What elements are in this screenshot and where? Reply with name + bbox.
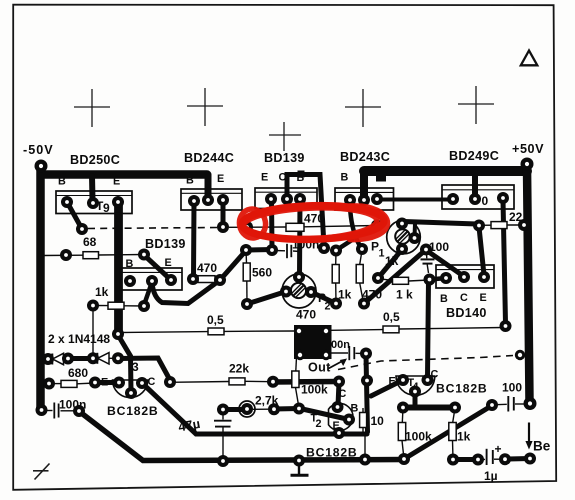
node diode D2 cathode trunk <box>112 352 124 364</box>
node BD244C E lower <box>217 221 229 233</box>
pin BD139 T1 B <box>294 193 306 205</box>
svg-text:2: 2 <box>316 418 322 430</box>
node bias rail right <box>449 402 461 414</box>
jumper tab under bus <box>376 176 386 182</box>
svg-text:C: C <box>339 388 347 400</box>
Out arrow <box>329 359 348 369</box>
svg-text:BD139: BD139 <box>264 151 305 165</box>
resistor 470 (red-circled) <box>229 223 377 231</box>
node trunk bottom <box>112 328 124 340</box>
wire P2 left arm <box>247 292 286 305</box>
pin BD140 C <box>458 271 470 283</box>
svg-text:Out: Out <box>308 361 331 375</box>
resistor 1k (T4 base) <box>449 408 456 459</box>
wire 100 node to BD140 collector <box>426 250 464 277</box>
node +50V terminal <box>521 158 534 171</box>
node 560 top <box>240 244 252 256</box>
transistor BD243C package <box>335 188 394 210</box>
wire 100k node to T2 base diagonal <box>300 409 349 420</box>
pin BD244C C <box>202 194 214 206</box>
pin Out block TL <box>294 326 304 336</box>
svg-text:470: 470 <box>362 288 382 302</box>
pin BD249C C <box>469 193 481 205</box>
wire BD243C emitter to BD249C base <box>377 198 452 202</box>
wire top bus +50V row <box>364 166 527 176</box>
pin BD244C B <box>188 195 200 207</box>
node 470 mid top <box>356 243 368 255</box>
svg-text:B: B <box>126 258 134 270</box>
wire T3 collector diagonal to audio rail <box>142 383 367 434</box>
pin BD244C E <box>217 194 229 206</box>
pin P1 bottom <box>396 243 408 255</box>
pin T3 E <box>113 377 125 389</box>
svg-text:22: 22 <box>509 210 523 224</box>
dashed net line to +50V pad <box>338 356 513 370</box>
svg-text:100n: 100n <box>59 398 86 412</box>
node 680 right <box>89 377 101 389</box>
trimmer P2 body <box>282 274 316 308</box>
wire BD139 T1 collector up and over <box>287 175 324 247</box>
wire T4 emitter diagonal <box>371 380 403 396</box>
node 2,7k right <box>268 403 280 415</box>
dashed net line left <box>88 228 218 229</box>
pin T4 E <box>397 374 409 386</box>
pin BD243C E <box>371 193 383 205</box>
wire 1k node down to diode node <box>92 306 94 359</box>
resistor 470 vertical (mid) <box>356 251 363 304</box>
wire BD243C collector to bus <box>360 171 368 198</box>
pin BD139 T1 E <box>265 193 277 205</box>
wire T2 collector stub <box>338 382 339 406</box>
transistor T9 BD250C package <box>56 191 132 214</box>
pin BD139 T2 B <box>124 275 136 287</box>
svg-text:B: B <box>440 293 448 305</box>
svg-text:BD139: BD139 <box>145 237 186 251</box>
resistor 560 vertical <box>243 250 250 304</box>
node diode D1-D2 link left <box>62 353 74 365</box>
resistor 22 <box>479 222 524 229</box>
svg-text:1: 1 <box>379 248 385 260</box>
node 100k bottom junction <box>293 403 305 415</box>
svg-text:1k: 1k <box>338 288 352 302</box>
pin P2 left <box>280 286 292 298</box>
svg-text:BD244C: BD244C <box>184 151 234 165</box>
resistor 0,5 left <box>119 328 294 335</box>
node 680 left on bus <box>43 378 55 390</box>
pin P2 right <box>305 286 317 298</box>
node 1k mid top <box>330 245 342 257</box>
pin BD243C C <box>358 194 370 206</box>
svg-text:1k: 1k <box>95 285 109 299</box>
node 560 bottom <box>241 298 253 310</box>
svg-text:BC182B: BC182B <box>436 382 488 396</box>
wire 22 node down to BD140 emitter <box>479 227 484 275</box>
wire BD250C base pad to node <box>67 202 82 229</box>
node diode D1 anode <box>42 353 54 365</box>
node dashed right on bus <box>515 350 525 360</box>
wire BD250C collector to bus <box>89 176 96 200</box>
diode D1 1N4148 <box>48 353 68 364</box>
svg-text:68: 68 <box>83 235 97 249</box>
trimmer P1 body <box>387 220 421 254</box>
svg-text:100k: 100k <box>301 383 328 397</box>
wire BD139 T1 base down to P2 <box>297 200 303 276</box>
pin Out block BR <box>321 350 331 360</box>
svg-text:1 k: 1 k <box>396 288 413 302</box>
wire 47u top link <box>223 407 247 412</box>
svg-text:10: 10 <box>371 414 385 428</box>
svg-text:E: E <box>389 376 396 388</box>
transistor T2 BD139 package (lower) <box>120 268 182 290</box>
node 68/T2 junction <box>138 249 150 261</box>
node 1k-3 right <box>424 274 436 286</box>
svg-text:C: C <box>431 369 439 381</box>
node 47u top <box>217 404 229 416</box>
svg-text:470: 470 <box>296 308 316 322</box>
wire bottom right link 2 <box>505 456 530 462</box>
node -50V terminal <box>35 160 48 173</box>
wire P1 top to 22 resistor node <box>404 222 477 225</box>
svg-text:100: 100 <box>429 240 449 254</box>
node cap left <box>266 244 278 256</box>
wire 1k node down to T4 collector <box>428 281 429 377</box>
wire P2 right arm <box>311 292 336 304</box>
wire bottom left diagonal and ground rail <box>80 412 404 461</box>
pin Out block BL <box>295 350 305 360</box>
wire BD139 T2 base to pad diagonal <box>144 282 152 305</box>
svg-text:100k: 100k <box>405 430 432 444</box>
svg-text:E: E <box>333 420 340 432</box>
svg-text:680: 680 <box>68 366 88 380</box>
svg-text:BD249C: BD249C <box>449 149 499 163</box>
wire diode node to 22k pad <box>119 358 170 380</box>
capacitor 100n (bottom left) <box>46 403 74 419</box>
wire BD244C emitter down <box>221 201 226 226</box>
resistor 1k (left, crossing trunk) <box>93 302 144 309</box>
svg-text:470: 470 <box>197 261 217 275</box>
node 1k-3 left <box>372 272 384 284</box>
resistor 100k (T4 emitter) <box>398 408 405 459</box>
svg-text:-50V: -50V <box>23 143 54 157</box>
wire long diagonal 100k to 100 cap <box>404 406 492 460</box>
pin BD243C B <box>344 194 356 206</box>
node coupling cap right <box>360 348 372 360</box>
node Be supply terminal <box>524 397 537 410</box>
wire +50V bus vertical <box>527 167 530 401</box>
capacitor 47u electrolytic <box>214 410 232 461</box>
svg-text:+50V: +50V <box>512 142 544 156</box>
svg-text:2 x 1N4148: 2 x 1N4148 <box>48 332 110 346</box>
svg-text:E: E <box>217 173 224 185</box>
node ground rail 100k <box>398 453 410 465</box>
pin P1 top <box>396 218 408 230</box>
wire BD250C emitter trunk down <box>114 204 123 332</box>
svg-text:3: 3 <box>132 360 139 374</box>
node riser mid <box>361 375 373 387</box>
wire trunk pad to T3 base <box>118 335 131 392</box>
wire -50V left bus vertical <box>36 167 45 409</box>
pin BD249C E <box>497 192 509 204</box>
pin BD249C B <box>447 193 459 205</box>
capacitor 1u <box>478 449 505 465</box>
node jumper drop <box>318 242 330 254</box>
link to ground rail <box>364 434 366 459</box>
svg-text:BC182B: BC182B <box>107 404 159 418</box>
wire BD249C emitter down long <box>503 200 506 323</box>
pin T2 E <box>333 427 345 439</box>
node 22 left <box>473 220 485 232</box>
wire T4 bias rail <box>403 405 455 411</box>
transistor BD140 package <box>436 265 494 288</box>
svg-text:470: 470 <box>304 212 324 226</box>
svg-text:2,7k: 2,7k <box>255 394 279 408</box>
pin BD140 E <box>478 271 490 283</box>
pin T3 C <box>136 377 148 389</box>
node 2,7k ring <box>241 403 253 415</box>
node 100 junction <box>420 244 432 256</box>
wire BD139 T1 emitter down <box>269 200 275 248</box>
resistor 680 <box>54 380 95 387</box>
svg-text:Be: Be <box>533 439 551 454</box>
resistor 470 (under T2 BD139) <box>193 276 220 283</box>
node 470 right <box>371 220 383 232</box>
pin P2 top <box>293 271 305 283</box>
pin T3 B <box>125 387 137 399</box>
wire long diagonal to 100 node <box>364 250 426 304</box>
pin Out block TR <box>321 326 331 336</box>
capacitor 100 (at P1 node) <box>421 250 435 273</box>
capacitor 100 (right) <box>492 396 524 412</box>
svg-text:E: E <box>165 257 172 269</box>
svg-text:100: 100 <box>502 381 522 395</box>
node ground rail 47u <box>217 455 229 467</box>
transistor T2 BC182B outline <box>329 404 354 431</box>
pin BD140 B <box>440 272 452 284</box>
transistor T4 BC182B outline <box>396 376 435 395</box>
svg-text:1µ: 1µ <box>484 469 498 483</box>
node 1k mid bottom <box>330 298 342 310</box>
pin BD139 T2 C <box>146 275 158 287</box>
pin T2 B <box>343 414 355 426</box>
node 470 left <box>241 221 253 233</box>
node 470-2 right <box>214 274 226 286</box>
wire bottom right link 1 <box>453 457 478 462</box>
link 2,7k <box>239 401 268 417</box>
svg-text:C: C <box>460 292 468 304</box>
node 100n right <box>73 405 85 417</box>
wire diode pair link <box>68 356 93 361</box>
triangle marker <box>521 51 538 66</box>
wire BD243C base curved trace <box>350 202 362 248</box>
svg-text:1k: 1k <box>457 430 471 444</box>
pin T4 C <box>422 374 434 386</box>
node ground symbol <box>293 455 305 467</box>
node 1k-1 right <box>138 300 150 312</box>
pin BD250C B <box>61 196 73 208</box>
svg-text:+: + <box>495 442 502 456</box>
node 470 mid bottom <box>358 298 370 310</box>
resistor 1k horizontal (to BD140) <box>378 277 429 284</box>
annotation red ellipse <box>237 204 387 242</box>
node 22k right <box>267 376 279 388</box>
node 1k-1 left <box>87 300 99 312</box>
resistor 0,5 right <box>331 326 503 333</box>
wire T4 base stub <box>413 391 418 406</box>
svg-text:1k: 1k <box>385 254 399 268</box>
node diode D1-D2 link right <box>87 352 99 364</box>
wire 2,7k node to 100k node <box>274 406 299 412</box>
capacitor coupling at Out <box>332 346 367 360</box>
wire 22k node to T2 collector node <box>273 379 339 385</box>
pin P1 right <box>409 232 421 244</box>
wire node row to cap <box>246 247 273 253</box>
node bias dashed left <box>76 223 88 235</box>
node Be bottom <box>524 453 536 465</box>
svg-text:4: 4 <box>413 381 419 393</box>
svg-text:C: C <box>148 376 156 388</box>
svg-text:B: B <box>341 172 349 184</box>
node 0,5 right end <box>500 320 512 332</box>
node 1u left <box>472 454 484 466</box>
resistor 1k vertical (mid) <box>332 251 339 304</box>
wire P1 right arm stub <box>413 224 418 237</box>
capacitor 300n output block <box>294 325 332 359</box>
wire BD249C collector to bus <box>472 176 478 197</box>
resistor 100k (at Out block) <box>292 357 299 408</box>
node 68 resistor <box>60 249 72 261</box>
wire P1 bottom arm <box>378 250 402 279</box>
diode D2 1N4148 <box>93 353 118 364</box>
svg-text:B: B <box>351 403 359 415</box>
node 22k left <box>164 376 176 388</box>
wire BD244C base down <box>191 202 197 277</box>
svg-text:0,5: 0,5 <box>207 313 224 327</box>
wire BD139 T2 base bent trace <box>152 251 246 304</box>
pin BD139 T1 C <box>281 193 293 205</box>
svg-text:E: E <box>480 292 487 304</box>
node T2 collector top <box>333 376 345 388</box>
resistor 22k <box>170 378 273 385</box>
pin BD139 T2 E <box>165 274 177 286</box>
wire node to BD139 T2 emitter diagonal <box>144 255 171 280</box>
svg-text:9: 9 <box>103 201 110 215</box>
node 1u right <box>499 453 511 465</box>
node 100 cap left <box>486 399 498 411</box>
Be input arrow <box>525 423 532 450</box>
node 1k-4 bottom <box>447 454 459 466</box>
resistor 10 <box>360 408 367 433</box>
capacitor 100n (mid, at T1) <box>275 244 300 258</box>
pin BD250C E <box>112 196 124 208</box>
svg-text:560: 560 <box>252 266 272 280</box>
transistor T1 BD139 package <box>255 188 317 209</box>
svg-text:BD140: BD140 <box>446 306 487 320</box>
wire 1k node to BD140 base <box>430 278 446 280</box>
svg-text:BD243C: BD243C <box>340 150 390 164</box>
node 22 right on bus <box>518 219 530 231</box>
svg-text:E: E <box>101 377 108 389</box>
wire bus drop to BD244C collector <box>205 175 212 199</box>
svg-text:BD250C: BD250C <box>70 153 120 167</box>
svg-text:E: E <box>261 172 268 184</box>
svg-text:22k: 22k <box>229 362 249 376</box>
node bias rail left <box>397 402 409 414</box>
pin T4 B <box>409 386 421 398</box>
ground symbol <box>291 465 309 475</box>
transistor T3 BC182B outline <box>113 380 148 398</box>
wire top bus -50V row <box>41 170 207 179</box>
wire audio rail riser <box>366 355 368 432</box>
node 470-2 left <box>187 273 199 285</box>
svg-text:0,5: 0,5 <box>383 310 400 324</box>
svg-text:2: 2 <box>325 301 331 313</box>
transistor BD244C package <box>181 189 242 210</box>
svg-text:0: 0 <box>482 194 489 208</box>
pin T2 C <box>332 401 344 413</box>
svg-text:00n: 00n <box>331 339 350 351</box>
svg-text:BC182B: BC182B <box>306 446 358 460</box>
node 100n left on bus <box>36 404 48 416</box>
pin BD250C C <box>87 197 99 209</box>
wire stub to 1k top node <box>337 240 353 250</box>
transistor BD249C package <box>442 185 514 209</box>
wire 680 node to T3 emitter <box>95 380 119 385</box>
node ground rail riser <box>359 454 371 466</box>
resistor 68 <box>43 252 144 259</box>
jumper square via (top) <box>298 171 305 178</box>
